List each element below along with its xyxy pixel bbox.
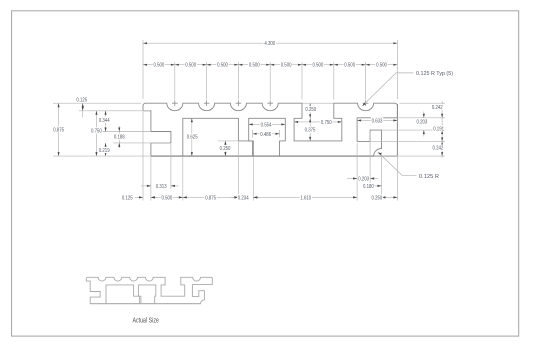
actual-size bottom edge <box>90 303 200 305</box>
dim 0.554 slot A outer <box>249 121 286 128</box>
notch center marks <box>172 100 368 106</box>
svg-text:0.750: 0.750 <box>91 128 102 134</box>
svg-text:0.125 R Typ (5): 0.125 R Typ (5) <box>416 71 453 77</box>
dim 0.750 <box>90 111 102 156</box>
dim 0.180 notch <box>362 183 381 190</box>
svg-text:0.219: 0.219 <box>99 148 110 154</box>
dim 0.500 #5 <box>270 62 302 69</box>
svg-text:0.180: 0.180 <box>363 184 374 190</box>
svg-text:0.203: 0.203 <box>358 176 369 182</box>
dim 0.203 notch <box>347 175 378 182</box>
dim overall 4.000 <box>143 40 397 47</box>
svg-text:0.250: 0.250 <box>305 107 316 113</box>
dim 0.633 rebate depth <box>357 117 397 124</box>
dim 0.500 #2 <box>175 62 207 69</box>
svg-text:0.203: 0.203 <box>417 120 428 126</box>
actual-size cavity C1 <box>106 285 141 304</box>
dim 0.375 T-slot cavity depth <box>304 118 316 141</box>
leader 0.125 R fillet <box>378 152 440 180</box>
dim 0.875 bottom <box>183 194 239 201</box>
svg-text:0.500: 0.500 <box>281 63 292 69</box>
dim 0.500 bottom <box>151 194 183 201</box>
svg-text:0.875: 0.875 <box>53 127 64 133</box>
svg-text:0.500: 0.500 <box>217 63 228 69</box>
svg-text:0.625: 0.625 <box>187 134 198 140</box>
svg-text:0.750: 0.750 <box>321 120 332 126</box>
svg-text:0.234: 0.234 <box>238 195 249 201</box>
svg-text:0.500: 0.500 <box>344 63 355 69</box>
actual-size profile outline <box>86 277 212 303</box>
actual-size slot A <box>138 285 155 304</box>
dim 0.234 bottom <box>231 194 260 201</box>
svg-text:0.125: 0.125 <box>122 195 133 201</box>
dim 0.250 cavity step <box>218 141 238 156</box>
extension lines left side <box>53 103 170 156</box>
svg-text:0.344: 0.344 <box>99 118 110 124</box>
svg-text:0.500: 0.500 <box>185 63 196 69</box>
dim 0.313 left slot depth <box>141 183 179 190</box>
dim 0.500 #8 <box>366 62 398 69</box>
dim 0.125 bottom left <box>121 194 157 201</box>
dim 0.500 #7 <box>334 62 366 69</box>
dim 0.242 right top <box>431 101 443 118</box>
svg-text:0.313: 0.313 <box>156 184 167 190</box>
svg-text:0.554: 0.554 <box>261 122 272 128</box>
bottom edge continuous line <box>151 155 398 157</box>
slot A (stepped bottom-open slot 0.554/0.486) <box>249 118 286 156</box>
svg-text:0.242: 0.242 <box>432 105 443 111</box>
cavity C1 (bottom-open, 0.625-1.734) <box>183 118 254 156</box>
dim 0.486 slot A inner <box>253 130 280 138</box>
svg-text:0.125 R: 0.125 R <box>419 174 439 180</box>
dim 0.191 right <box>432 118 444 142</box>
svg-text:4.300: 4.300 <box>264 41 275 47</box>
svg-text:0.500: 0.500 <box>162 195 173 201</box>
dim 0.219 <box>98 143 110 156</box>
dim 0.250 bottom right <box>371 194 398 201</box>
dim 0.125 left top step <box>76 97 88 118</box>
dim 0.344 <box>98 111 110 132</box>
svg-text:0.633: 0.633 <box>372 118 383 124</box>
svg-text:0.250: 0.250 <box>220 146 231 152</box>
svg-text:0.250: 0.250 <box>372 195 383 201</box>
dim 0.242 right bottom <box>432 141 444 158</box>
svg-text:0.188: 0.188 <box>114 135 125 141</box>
svg-text:0.125: 0.125 <box>76 98 87 104</box>
dim 0.500 #6 <box>302 62 334 69</box>
dim 0.500 #1 <box>143 62 175 69</box>
svg-text:0.875: 0.875 <box>205 195 216 201</box>
dim 0.500 #4 <box>238 62 270 69</box>
dim 0.250 T-slot opening depth <box>302 103 334 118</box>
svg-text:0.500: 0.500 <box>249 63 260 69</box>
dim 0.500 #3 <box>207 62 239 69</box>
svg-text:0.242: 0.242 <box>433 146 444 152</box>
svg-text:0.500: 0.500 <box>376 63 387 69</box>
svg-text:0.375: 0.375 <box>305 128 316 134</box>
svg-text:0.500: 0.500 <box>154 63 165 69</box>
svg-text:0.500: 0.500 <box>313 63 324 69</box>
dim 0.875 left overall height <box>52 103 64 156</box>
dim 1.610 bottom <box>253 194 357 201</box>
svg-text:0.486: 0.486 <box>260 132 271 138</box>
svg-text:0.191: 0.191 <box>433 126 444 132</box>
dim 0.625 cavity depth <box>186 118 198 156</box>
part profile outline <box>143 103 397 156</box>
svg-text:Actual Size: Actual Size <box>132 317 159 324</box>
dim 0.188 <box>113 126 125 148</box>
extension lines top <box>143 40 397 100</box>
dim 0.750 T-slot cavity width <box>294 119 342 126</box>
extension lines bottom <box>143 104 397 201</box>
extension lines right side <box>370 103 445 156</box>
leader 0.125 R Typ (5) <box>362 71 453 106</box>
dim 0.203 right slot height <box>416 112 428 137</box>
svg-text:1.610: 1.610 <box>300 195 311 201</box>
